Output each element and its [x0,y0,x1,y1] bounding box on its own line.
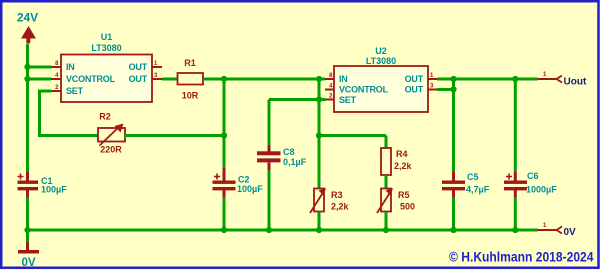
node rail-VCONTROL junction [24,76,30,82]
wire R4 to R5 [385,175,388,189]
resistor R1 [178,58,204,101]
node junction 453 out2 [450,86,456,92]
node rail-IN junction [24,64,30,70]
capacitor C5 [442,172,490,230]
wire x386 down [385,136,388,149]
node junction x320 SET wire [316,96,322,102]
node rail junction C2 [221,227,227,233]
node rail junction R5 [383,227,389,233]
node junction 512 top [512,76,518,82]
wire vertical 512 [514,79,517,172]
ground [18,230,39,269]
svg-text:LT3080: LT3080 [91,43,121,53]
svg-text:C2: C2 [238,175,250,185]
svg-text:U1: U1 [101,32,113,42]
wire U1 OUT to R1 [162,78,178,81]
wire R3 to rail [318,212,321,231]
wire U2 OUT2 to vertical [437,88,454,91]
node rail junction C5 [450,227,456,233]
node rail junction C6 [512,227,518,233]
svg-text:SET: SET [339,95,357,105]
svg-text:OUT: OUT [129,74,148,84]
node junction x320 y135 [316,132,322,138]
svg-text:10R: 10R [182,91,199,101]
svg-text:R2: R2 [99,112,111,122]
capacitor C8 [257,100,307,231]
svg-text:IN: IN [339,74,348,84]
svg-text:24V: 24V [17,11,38,25]
wire U1 SET to trimmer [40,91,98,136]
wire SET node vertical x319 [318,100,321,189]
svg-text:OUT: OUT [129,62,148,72]
svg-text:U2: U2 [375,46,387,56]
svg-text:100µF: 100µF [237,184,263,194]
power symbol 24V [17,11,38,44]
svg-text:220R: 220R [100,145,122,155]
node rail junction at ground [24,227,30,233]
svg-text:2,2k: 2,2k [331,202,350,212]
resistor R3 trimmer [310,188,350,213]
svg-text:OUT: OUT [405,74,424,84]
node A junction [221,132,227,138]
svg-text:VCONTROL: VCONTROL [339,85,389,95]
svg-text:R1: R1 [184,58,196,68]
svg-text:R4: R4 [396,149,408,159]
node junction 453 top [450,76,456,82]
svg-text:1000µF: 1000µF [526,185,557,195]
resistor R2 trimmer [98,112,125,155]
wire vertical 453 [452,79,455,172]
wire R1 to U2 IN [203,78,325,81]
capacitor C2 [213,168,264,230]
svg-text:OUT: OUT [405,85,424,95]
node rail junction C8 [266,227,272,233]
node junction at x224 [221,76,227,82]
svg-text:C6: C6 [527,171,539,181]
svg-text:0V: 0V [21,257,35,269]
svg-text:SET: SET [66,86,84,96]
svg-text:0V: 0V [564,227,577,238]
wire node A vertical to C2 [223,79,226,168]
svg-text:C5: C5 [467,172,479,182]
svg-text:2,2k: 2,2k [394,161,413,171]
svg-text:1: 1 [543,223,547,229]
wire rail to VCONTROL U1 [28,78,52,81]
capacitor C6 [504,171,557,230]
svg-text:4,7µF: 4,7µF [466,185,490,195]
wire C8 to U2 SET [269,98,325,101]
svg-text:C8: C8 [283,147,295,157]
svg-text:VCONTROL: VCONTROL [66,74,116,84]
svg-text:Uout: Uout [564,77,587,88]
svg-text:© H.Kuhlmann 2018-2024: © H.Kuhlmann 2018-2024 [449,249,594,265]
svg-text:LT3080: LT3080 [366,56,396,66]
svg-text:1: 1 [543,72,547,78]
regulator U2 LT3080 [325,46,437,112]
wire R5 to rail [385,212,388,231]
connector J1 Uout [538,72,587,88]
connector J2 0V [538,223,576,238]
wire trimmer to node A [125,134,225,137]
svg-text:500: 500 [400,202,415,212]
svg-text:R5: R5 [398,190,410,200]
node rail junction R3 [316,227,322,233]
wire bottom rail [28,229,539,232]
wire SET resistor chain horizontal [319,134,386,137]
svg-text:IN: IN [66,62,75,72]
wire 24V rail vertical [26,44,29,172]
capacitor C1 [18,172,68,230]
node junction x320 on IN wire [316,76,322,82]
resistor R4 [381,148,413,175]
resistor R5 trimmer [377,188,415,213]
regulator U1 LT3080 [51,32,162,102]
svg-text:100µF: 100µF [41,185,67,195]
svg-text:R3: R3 [331,190,343,200]
svg-text:0,1µF: 0,1µF [283,157,307,167]
wire IN to SET tie [318,79,321,100]
wire U2 OUT top to connector [437,78,538,81]
wire rail to IN U1 [28,66,52,69]
